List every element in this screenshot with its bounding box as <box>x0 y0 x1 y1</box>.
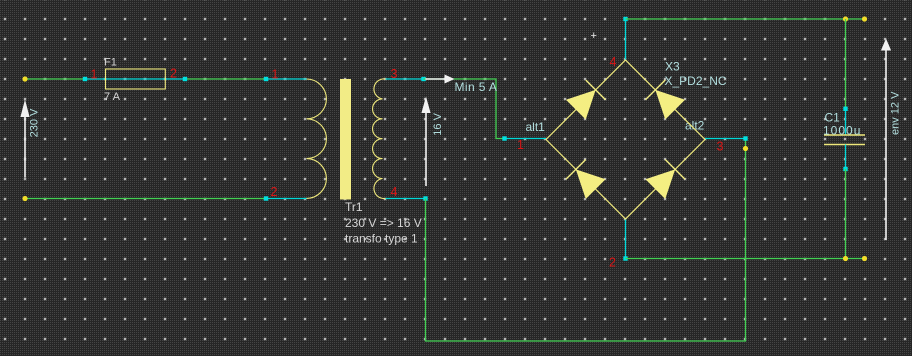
svg-text:1: 1 <box>272 68 279 82</box>
svg-text:1: 1 <box>517 138 524 152</box>
svg-text:X3: X3 <box>665 60 680 74</box>
node: junction dot below alt2 pin <box>743 146 748 151</box>
wire: top rail down to capacitor <box>845 19 847 109</box>
wire: bridge + output to top right <box>626 18 865 20</box>
node: wire end dot bottom right <box>862 256 867 261</box>
svg-text:+: + <box>591 30 597 42</box>
node: wire end dot left top <box>22 76 27 81</box>
svg-text:7 A: 7 A <box>104 91 121 103</box>
svg-text:Min 5 A: Min 5 A <box>455 80 498 94</box>
svg-text:230 V => 16 V: 230 V => 16 V <box>345 216 422 230</box>
svg-text:3: 3 <box>717 140 724 154</box>
wire: bridge - output bottom rail <box>626 258 866 260</box>
svg-text:X_PD2_NC: X_PD2_NC <box>665 74 727 88</box>
node: wire end dot left bottom <box>22 196 27 201</box>
svg-text:C1: C1 <box>825 111 841 125</box>
transformer Tr1 core <box>340 79 351 200</box>
svg-text:4: 4 <box>610 55 617 69</box>
wire: AC neutral bottom left <box>25 198 266 200</box>
arrow: Min 5 A current indicator <box>426 78 447 80</box>
node: wire end dot top right <box>862 16 867 21</box>
transformer Tr1 pin 2 line <box>266 198 307 200</box>
svg-text:env 12 V: env 12 V <box>890 91 902 135</box>
svg-text:Tr1: Tr1 <box>345 200 363 214</box>
node: junction dot at capacitor bottom branch <box>843 256 848 261</box>
capacitor C1 pin 2 line <box>845 145 847 170</box>
capacitor C1 pin 1 line <box>845 109 847 135</box>
fuse F1 body <box>106 69 166 89</box>
diode D-bottomleft of bridge <box>566 159 606 199</box>
arrow: 16 V secondary indicator <box>425 111 427 186</box>
wire: fuse to transformer primary pin 1 <box>185 78 266 80</box>
diode D-topright of bridge <box>645 80 685 120</box>
svg-text:230 V: 230 V <box>28 108 40 137</box>
wire: transformer pin4 down and along bottom to alt2 <box>426 139 746 342</box>
fuse F1 pin line <box>85 78 185 80</box>
diode D-topleft of bridge <box>566 80 606 120</box>
transformer Tr1 pin 4 line <box>386 198 426 200</box>
bridge X3 pin 1 line (alt1) <box>505 138 547 140</box>
arrow: 230 V input indicator <box>24 114 26 178</box>
wire: capacitor bottom to bottom rail <box>845 169 847 259</box>
svg-text:1000u: 1000u <box>823 124 861 138</box>
svg-text:2: 2 <box>271 185 278 199</box>
svg-text:alt1: alt1 <box>526 120 546 134</box>
diode D-bottomright of bridge <box>645 159 685 199</box>
fuse F1 pin end squares <box>83 77 87 81</box>
wire: AC live from source to fuse <box>25 78 85 80</box>
transformer Tr1 pin 3 line <box>386 78 424 80</box>
svg-text:4: 4 <box>391 185 398 199</box>
svg-text:3: 3 <box>391 67 398 81</box>
svg-text:alt2: alt2 <box>685 119 705 133</box>
svg-text:16 V: 16 V <box>432 112 444 135</box>
node: junction dot at capacitor top branch <box>843 16 848 21</box>
bridge X3 pin 3 line (alt2) <box>705 138 746 140</box>
svg-text:1: 1 <box>91 68 98 82</box>
svg-text:2: 2 <box>609 256 616 270</box>
arrow: env 12 V output indicator <box>885 49 887 240</box>
transformer Tr1 primary winding <box>307 79 327 198</box>
bridge X3 pin 4 line (+ top) <box>625 19 627 60</box>
bridge X3 diamond edges <box>546 60 705 219</box>
transformer Tr1 pin 1 line <box>266 78 307 80</box>
wire: transformer pin3 to bridge alt1 (with corner) <box>424 79 505 139</box>
transformer Tr1 secondary winding <box>373 79 386 199</box>
svg-text:2: 2 <box>170 67 177 81</box>
capacitor C1 plates <box>824 134 865 136</box>
svg-text:F1: F1 <box>104 57 117 69</box>
svg-text:transfo type 1: transfo type 1 <box>345 232 418 246</box>
bridge X3 pin 2 line (- bottom) <box>625 219 627 259</box>
